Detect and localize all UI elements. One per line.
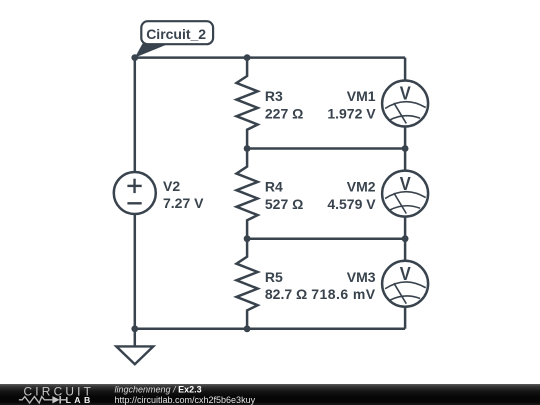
junction node top-left: [131, 54, 138, 61]
svg-text:VM3: VM3: [347, 269, 376, 285]
label VM2: [347, 179, 376, 195]
CircuitLab logo resistor squiggle and diode: [19, 396, 66, 403]
junction node rail2 voltmeter column: [402, 145, 409, 152]
svg-text:http://circuitlab.com/cxh2f5b6: http://circuitlab.com/cxh2f5b6e3kuy: [115, 395, 256, 405]
wire left column (V2 branch): [134, 58, 137, 329]
ground: [116, 329, 153, 364]
voltmeter VM2: [382, 171, 428, 217]
node label Circuit_2: [135, 21, 213, 57]
svg-text:R3: R3: [265, 88, 283, 104]
voltage source V2: [114, 172, 156, 214]
label VM3: [347, 269, 376, 285]
value 1.972 V: [327, 106, 376, 122]
value 527 ohm: [265, 196, 303, 212]
value 7.27 V: [163, 195, 204, 211]
svg-text:7.27 V: 7.27 V: [163, 195, 204, 211]
junction node top resistor column: [244, 54, 251, 61]
svg-text:LAB: LAB: [66, 395, 94, 405]
svg-text:4.579 V: 4.579 V: [327, 196, 376, 212]
wire rail 3: [247, 237, 405, 240]
svg-text:82.7 Ω: 82.7 Ω: [265, 286, 307, 302]
svg-text:V: V: [400, 173, 412, 194]
junction node rail3 voltmeter column: [402, 235, 409, 242]
svg-text:VM2: VM2: [347, 179, 376, 195]
svg-text:V: V: [400, 263, 412, 284]
wire voltmeter column 3: [404, 239, 407, 329]
svg-text:R4: R4: [265, 179, 283, 195]
svg-text:718.6 mV: 718.6 mV: [311, 286, 376, 302]
wire voltmeter column 2: [404, 149, 407, 239]
label V2: [163, 178, 180, 194]
footer bar: [0, 384, 540, 405]
junction node rail2 resistor column: [244, 145, 251, 152]
wire top rail: [135, 56, 405, 59]
value 4.579 V: [327, 196, 376, 212]
svg-text:527 Ω: 527 Ω: [265, 196, 303, 212]
CircuitLab logo wordmark CIRCUIT: [24, 385, 95, 399]
value 227 ohm: [265, 106, 303, 122]
svg-text:V: V: [400, 83, 412, 104]
wire rail 2: [247, 147, 405, 150]
value 718.6 mV: [311, 286, 376, 302]
label VM1: [347, 88, 376, 104]
junction node bottom resistor column: [244, 325, 251, 332]
resistor R5: [237, 239, 258, 329]
svg-text:227 Ω: 227 Ω: [265, 106, 303, 122]
resistor R3: [237, 58, 258, 149]
wire voltmeter column 1: [404, 58, 407, 149]
svg-text:VM1: VM1: [347, 88, 376, 104]
label R4: [265, 179, 283, 195]
footer credit line: [115, 385, 256, 405]
wire bottom rail: [135, 328, 405, 331]
svg-text:R5: R5: [265, 269, 283, 285]
svg-text:lingchenmeng / Ex2.3: lingchenmeng / Ex2.3: [115, 385, 202, 395]
svg-text:V2: V2: [163, 178, 180, 194]
junction node rail3 resistor column: [244, 235, 251, 242]
voltmeter VM1: [382, 81, 428, 127]
svg-text:Circuit_2: Circuit_2: [146, 26, 206, 42]
resistor R4: [237, 149, 258, 239]
CircuitLab logo wordmark LAB: [66, 395, 94, 405]
label R3: [265, 88, 283, 104]
value 82.7 ohm: [265, 286, 307, 302]
voltmeter VM3: [382, 261, 428, 307]
svg-text:1.972 V: 1.972 V: [327, 106, 376, 122]
label R5: [265, 269, 283, 285]
junction node bottom-left: [131, 325, 138, 332]
